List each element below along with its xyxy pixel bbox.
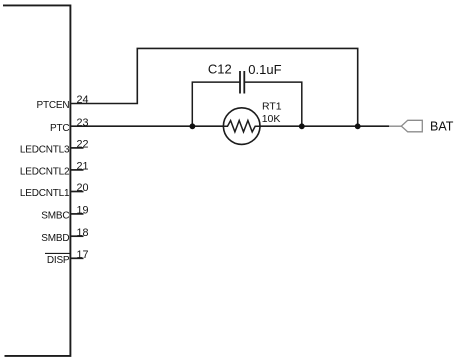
pin 22 LEDCNTL3 — [20, 139, 89, 156]
svg-text:PTCEN: PTCEN — [36, 100, 69, 111]
svg-text:SMBC: SMBC — [41, 211, 69, 222]
pin 18 SMBD — [41, 227, 88, 244]
svg-text:21: 21 — [76, 161, 88, 173]
pin 20 LEDCNTL1 — [20, 182, 89, 199]
capacitor C12 plates — [240, 71, 244, 94]
thermistor RT1 zigzag element — [223, 121, 260, 132]
svg-text:17: 17 — [76, 249, 88, 261]
wire: capacitor branch right riser — [244, 82, 301, 126]
off-page connector pin (gray) — [389, 125, 401, 127]
svg-text:23: 23 — [76, 117, 88, 129]
svg-text:19: 19 — [76, 205, 88, 217]
svg-text:18: 18 — [76, 227, 88, 239]
svg-text:DISP: DISP — [47, 255, 70, 266]
svg-text:LEDCNTL1: LEDCNTL1 — [20, 188, 70, 199]
junction dot left (cap branch / PTC net) — [190, 123, 196, 129]
svg-text:BAT: BAT — [430, 120, 454, 134]
wire: capacitor branch left riser — [192, 82, 240, 126]
thermistor RT1 circle — [223, 108, 260, 145]
wire: PTC net main horizontal to BAT — [70, 125, 389, 127]
pin 19 SMBC — [41, 205, 88, 222]
wire: PTCEN net (pin24 right, up, across, down to PTC net) — [70, 48, 357, 126]
junction dot right (cap branch / PTC net) — [299, 123, 305, 129]
junction dot far right (PTCEN riser / PTC net) — [355, 123, 361, 129]
pin 23 PTC — [50, 117, 89, 134]
pin 24 PTCEN — [36, 94, 88, 111]
IC body (left, partially cropped) — [3, 5, 70, 356]
svg-text:24: 24 — [76, 94, 88, 106]
svg-text:0.1uF: 0.1uF — [248, 62, 281, 77]
svg-text:C12: C12 — [208, 62, 232, 77]
svg-text:22: 22 — [76, 139, 88, 151]
svg-text:LEDCNTL2: LEDCNTL2 — [20, 167, 70, 178]
svg-text:PTC: PTC — [50, 123, 69, 134]
svg-text:20: 20 — [76, 182, 88, 194]
svg-text:SMBD: SMBD — [41, 233, 69, 244]
svg-text:RT1: RT1 — [262, 101, 282, 113]
off-page connector BAT symbol — [401, 120, 422, 132]
pin 17 DISP (active low) — [45, 249, 89, 266]
svg-text:10K: 10K — [262, 113, 281, 125]
pin 21 LEDCNTL2 — [20, 161, 89, 178]
svg-text:LEDCNTL3: LEDCNTL3 — [20, 145, 70, 156]
